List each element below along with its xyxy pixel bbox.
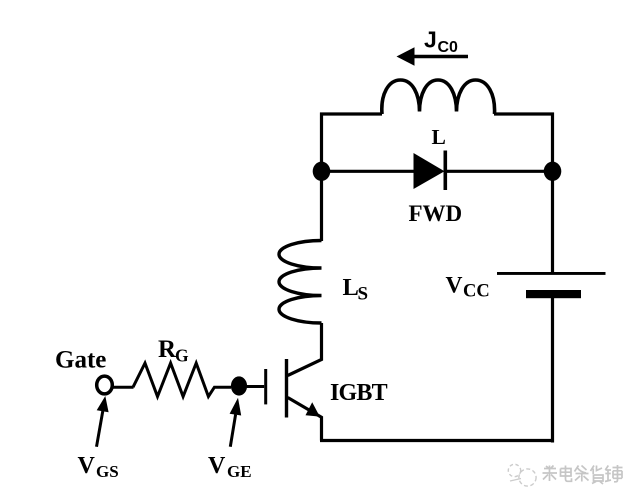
label Jc0 xyxy=(424,27,458,57)
node junction dot left xyxy=(313,162,331,181)
wire bottom rail xyxy=(320,439,554,442)
collector lead xyxy=(288,323,322,376)
wire diode branch right xyxy=(447,170,553,173)
arrow Jc0 current direction xyxy=(397,47,469,65)
svg-text:GE: GE xyxy=(227,462,252,481)
resistor RG zigzag xyxy=(133,363,231,396)
svg-text:V: V xyxy=(78,453,96,479)
svg-text:V: V xyxy=(446,273,463,299)
wire diode branch left xyxy=(322,170,415,173)
svg-text:J: J xyxy=(424,27,437,53)
label VGE xyxy=(208,453,252,481)
svg-text:G: G xyxy=(175,346,189,366)
svg-text:CC: CC xyxy=(463,282,490,302)
svg-text:L: L xyxy=(343,274,359,301)
wire gate to resistor xyxy=(113,386,134,389)
diode FWD xyxy=(414,151,448,191)
transistor Q1 IGBT xyxy=(264,323,321,441)
label VGS xyxy=(78,453,119,481)
label Ls xyxy=(343,274,369,305)
wire right vertical (top rail to battery) xyxy=(551,113,554,273)
svg-text:V: V xyxy=(208,453,226,479)
wire right vertical (battery to bottom) xyxy=(551,297,554,443)
terminal Gate (open circle) xyxy=(97,376,113,394)
svg-text:L: L xyxy=(432,125,446,149)
battery Vcc plate negative (thick short) xyxy=(526,290,581,298)
svg-text:FWD: FWD xyxy=(409,201,463,226)
node junction dot right xyxy=(544,162,562,181)
inductor L1 (load inductor L) xyxy=(382,80,495,114)
wire top rail left segment xyxy=(320,112,382,115)
emitter lead with arrow xyxy=(288,398,322,441)
inductor Ls (stray inductance) xyxy=(279,241,322,324)
svg-text:C0: C0 xyxy=(438,39,459,56)
body bar xyxy=(285,359,288,418)
watermark text xyxy=(543,465,623,484)
svg-text:S: S xyxy=(358,284,369,305)
arrow VGS pointer xyxy=(97,396,109,447)
label Vcc xyxy=(446,273,490,302)
wire dot to gate bar xyxy=(239,385,264,388)
arrow VGE pointer xyxy=(230,398,242,447)
watermark logo xyxy=(508,464,536,486)
wire left vertical (top rail to Ls) xyxy=(320,113,323,242)
label RG xyxy=(158,336,189,366)
wire top rail right segment xyxy=(494,112,554,115)
gate bar xyxy=(264,369,267,404)
svg-text:IGBT: IGBT xyxy=(330,380,388,406)
svg-text:GS: GS xyxy=(96,462,119,481)
node VGE dot xyxy=(231,376,247,395)
svg-text:Gate: Gate xyxy=(55,347,106,374)
battery Vcc plate positive (thin long) xyxy=(497,272,606,275)
